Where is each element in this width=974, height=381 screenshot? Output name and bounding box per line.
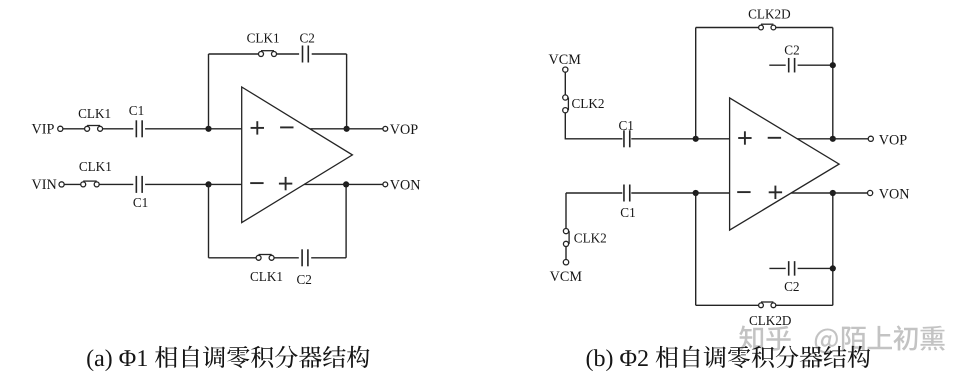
op-amp U1 (fully differential) — [242, 87, 353, 223]
wire — [209, 128, 242, 130]
svg-text:CLK2: CLK2 — [572, 96, 605, 111]
svg-text:C2: C2 — [297, 272, 312, 287]
wire (top feedback left vertical) — [208, 54, 210, 129]
svg-text:VCM: VCM — [549, 52, 582, 68]
wire — [696, 192, 730, 194]
svg-text:CLK2: CLK2 — [574, 231, 607, 246]
label VOP — [879, 132, 907, 148]
wire — [63, 128, 85, 130]
wire (top feedback right vertical) — [832, 28, 834, 139]
caption (b) — [587, 346, 871, 371]
input terminal VIP — [58, 126, 63, 131]
label C2 — [784, 279, 799, 294]
label CLK2D — [749, 313, 792, 328]
label VCM (top) — [549, 52, 582, 68]
capacitor C2 (top feedback) — [303, 46, 309, 63]
svg-text:CLK1: CLK1 — [79, 159, 112, 174]
svg-text:C1: C1 — [133, 195, 148, 210]
wire (bottom feedback right vertical) — [832, 193, 834, 305]
svg-text:C1: C1 — [619, 118, 634, 133]
terminal VCM (bottom) — [563, 260, 568, 265]
switch CLK2 (top) — [563, 95, 569, 113]
svg-text:VON: VON — [390, 177, 421, 193]
label CLK1 — [250, 269, 283, 284]
label C1 — [133, 195, 148, 210]
label VOP — [390, 122, 418, 138]
label CLK1 — [79, 159, 112, 174]
label C1 — [620, 205, 635, 220]
svg-text:VIN: VIN — [32, 177, 57, 193]
wire (bottom feedback right vertical) — [345, 184, 347, 257]
svg-text:VOP: VOP — [879, 132, 907, 148]
wire — [64, 183, 81, 185]
wire (bottom feedback left vertical) — [695, 193, 697, 305]
svg-text:CLK1: CLK1 — [78, 106, 111, 121]
output terminal VON — [383, 182, 388, 187]
label CLK2D — [748, 6, 791, 21]
label C1 — [619, 118, 634, 133]
label C2 — [784, 42, 799, 57]
wire — [99, 183, 133, 185]
svg-text:C1: C1 — [129, 103, 144, 118]
node (VOP feedback junction) — [344, 126, 350, 132]
switch CLK2D (bottom feedback) — [759, 302, 776, 308]
node (VON feedback junction) — [830, 190, 836, 196]
svg-text:C2: C2 — [300, 31, 315, 46]
svg-text:VCM: VCM — [550, 269, 583, 285]
svg-text:VON: VON — [879, 187, 910, 203]
capacitor C2 (bottom feedback) — [789, 261, 795, 276]
switch CLK2D (top feedback) — [759, 24, 776, 30]
svg-text:CLK2D: CLK2D — [749, 313, 792, 328]
label C2 — [297, 272, 312, 287]
wire — [564, 72, 566, 95]
label C2 — [300, 31, 315, 46]
wire — [565, 247, 567, 260]
label CLK1 — [78, 106, 111, 121]
label C1 — [129, 103, 144, 118]
node (C2 bottom junction) — [830, 265, 836, 271]
op-amp U2 (fully differential) — [730, 98, 840, 230]
node (VON feedback junction) — [343, 181, 349, 187]
switch CLK1 (top feedback) — [259, 51, 277, 57]
caption (a) — [87, 346, 369, 371]
switch CLK1 (VIP input) — [85, 126, 103, 132]
svg-text:CLK1: CLK1 — [247, 31, 280, 46]
output terminal VOP — [868, 136, 873, 141]
wire (VON output) — [304, 183, 383, 185]
wire (C2 top stub) — [769, 64, 785, 66]
wire (top feedback horizontal) — [696, 27, 833, 29]
label VIP — [32, 122, 55, 138]
wire (top feedback left vertical) — [695, 28, 697, 139]
svg-text:C2: C2 — [784, 279, 799, 294]
wire — [798, 267, 833, 269]
watermark 知乎 @陌上初熏 — [739, 325, 945, 353]
wire — [145, 183, 208, 185]
label CLK2 — [572, 96, 605, 111]
output terminal VOP — [383, 126, 388, 131]
svg-text:C2: C2 — [784, 42, 799, 57]
capacitor C1 (VIP input) — [136, 120, 142, 137]
wire (bottom feedback horizontal) — [209, 257, 347, 259]
node (op-amp - input) — [205, 181, 211, 187]
node (op-amp - input) — [693, 190, 699, 196]
switch CLK1 (bottom feedback) — [256, 255, 274, 261]
label VIN — [32, 177, 57, 193]
wire — [209, 183, 242, 185]
label VON — [390, 177, 421, 193]
wire — [565, 113, 622, 139]
wire (C2 bottom stub) — [769, 267, 785, 269]
wire (VON output) — [791, 192, 867, 194]
wire (VOP output) — [797, 138, 868, 140]
wire — [145, 128, 208, 130]
svg-text:VIP: VIP — [32, 122, 55, 138]
node (op-amp + input) — [205, 126, 211, 132]
label VON — [879, 187, 910, 203]
label VCM (bottom) — [550, 269, 583, 285]
svg-text:CLK2D: CLK2D — [748, 6, 791, 21]
wire (top feedback horizontal) — [209, 53, 347, 55]
wire — [631, 138, 695, 140]
label CLK1 — [247, 31, 280, 46]
wire (bottom feedback left vertical) — [208, 184, 210, 257]
wire — [566, 193, 622, 229]
node (VOP feedback junction) — [830, 136, 836, 142]
capacitor C1 (VIN input) — [136, 176, 142, 193]
wire — [103, 128, 134, 130]
capacitor C1 (+ input) — [624, 130, 630, 147]
wire (top feedback right vertical) — [346, 54, 348, 129]
switch CLK1 (VIN input) — [81, 181, 100, 187]
svg-text:VOP: VOP — [390, 122, 418, 138]
svg-text:C1: C1 — [620, 205, 635, 220]
node (C2 top junction) — [830, 62, 836, 68]
wire — [696, 138, 730, 140]
output terminal VON — [868, 190, 873, 195]
wire (bottom feedback horizontal) — [696, 304, 833, 306]
switch CLK2 (bottom) — [563, 229, 569, 247]
capacitor C2 (top feedback) — [789, 58, 795, 72]
wire — [631, 192, 695, 194]
capacitor C1 (- input) — [624, 185, 630, 202]
svg-text:CLK1: CLK1 — [250, 269, 283, 284]
label CLK2 — [574, 231, 607, 246]
wire — [798, 64, 833, 66]
node (op-amp + input) — [693, 136, 699, 142]
wire (VOP output) — [310, 128, 383, 130]
capacitor C2 (bottom feedback) — [302, 249, 308, 266]
input terminal VIN — [59, 182, 64, 187]
terminal VCM (top) — [563, 67, 568, 72]
